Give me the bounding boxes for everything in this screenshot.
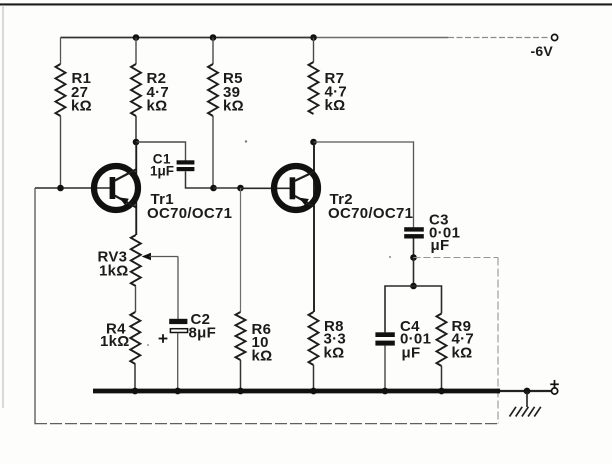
wire: base row to R6 node <box>214 187 241 189</box>
node: R1 / base / feedback junction <box>57 185 64 192</box>
wire: -6V supply rail (top) <box>61 37 550 39</box>
label Tr2 type OC70/OC71 <box>328 205 413 222</box>
wire: rail to R1 top <box>60 38 62 65</box>
node: rail junction at C2 <box>174 388 181 395</box>
node: rail junction at R4 <box>132 388 139 395</box>
capacitor C4 0.01uF <box>375 332 394 345</box>
ground rail (bottom, thick) <box>93 389 551 394</box>
svg-text:1μF: 1μF <box>150 164 174 179</box>
transistor Tr2 OC70/OC71 (PNP) <box>274 142 318 312</box>
svg-text:OC70/OC71: OC70/OC71 <box>328 205 413 222</box>
svg-text:kΩ: kΩ <box>71 98 92 115</box>
wire: output node down to C4/R9 tee <box>413 258 415 287</box>
wire: collector node to C1 left <box>136 142 186 161</box>
label Tr1 <box>151 191 174 208</box>
node: rail crossing at feedback wire <box>496 389 501 394</box>
transistor Tr1 OC70/OC71 (PNP) <box>94 142 138 235</box>
node: rail junction at R8 <box>310 388 317 395</box>
wire: C3 bottom to output node <box>413 239 415 258</box>
label + polarity at output terminal <box>550 380 559 389</box>
node: rail junction at R6 <box>237 388 244 395</box>
label C4 0.01uF <box>400 318 431 362</box>
label R9 4.7 kOhm <box>452 318 475 362</box>
wire: feedback bottom horizontal <box>35 423 498 425</box>
svg-text:8μF: 8μF <box>189 325 217 342</box>
label R8 3.3 kOhm <box>324 318 347 362</box>
wire: rail to R2 top <box>135 38 137 65</box>
terminal -6V (open circle) <box>552 34 558 40</box>
svg-text:kΩ: kΩ <box>325 97 346 114</box>
capacitor C1 1uF <box>177 160 195 171</box>
svg-text:OC70/OC71: OC70/OC71 <box>147 205 232 222</box>
label C1 1uF <box>150 152 174 179</box>
svg-text:1kΩ: 1kΩ <box>100 333 130 350</box>
node: output junction (C3 / feedback) <box>410 254 417 261</box>
scan speck <box>147 344 149 346</box>
node: rail junction at ground <box>524 388 531 395</box>
label R4 1kOhm <box>100 321 130 351</box>
svg-text:-6V: -6V <box>531 43 554 59</box>
wire: RV3 bottom to R4 top <box>135 286 137 312</box>
resistor R2 4.7k <box>131 64 141 116</box>
terminal + output (open circle) <box>552 388 558 394</box>
node: top rail junction at R5 <box>210 34 217 41</box>
wire: tee to C4 and R9 tops <box>385 286 442 332</box>
label R6 10 kOhm <box>252 321 273 365</box>
wire: feedback from output node right <box>414 257 499 259</box>
wire: feedback/base wire into Tr1 base <box>35 187 110 189</box>
wire: R6 top vertical from base node <box>240 188 242 312</box>
C2 polarity plus <box>159 334 168 343</box>
resistor R9 4.7k <box>437 314 447 367</box>
resistor R7 4.7k <box>309 62 319 114</box>
resistor R4 1k <box>130 312 140 364</box>
label Tr1 type OC70/OC71 <box>147 205 232 222</box>
svg-text:kΩ: kΩ <box>452 345 473 362</box>
capacitor C3 0.01uF <box>404 227 424 238</box>
svg-text:kΩ: kΩ <box>252 348 273 365</box>
label R2 4.7 kOhm <box>147 70 170 115</box>
svg-text:kΩ: kΩ <box>324 345 345 362</box>
wire: node to Tr2 base <box>241 187 295 189</box>
node: Tr2 collector / R7 / C3 junction <box>310 139 317 146</box>
resistor R8 3.3k <box>309 312 319 365</box>
wire: feedback left vertical to Tr1 base <box>34 188 36 424</box>
border frame left <box>2 5 4 408</box>
node: C4/R9 tee junction <box>410 283 417 290</box>
RV3 wiper arrow <box>142 253 178 260</box>
wire: R1 bottom to base node <box>60 116 62 188</box>
wire: R2 bottom to collector node <box>135 116 137 142</box>
wire: C4 bottom to ground rail <box>384 346 386 391</box>
wire: R5 bottom to Tr2 base node <box>212 116 214 188</box>
wire: wiper down to C2 <box>177 257 179 320</box>
node: rail junction at C4 <box>382 388 389 395</box>
label -6V <box>531 43 554 59</box>
node: R6 top junction <box>237 185 244 192</box>
label C3 0.01uF <box>429 212 460 255</box>
wire: R4 bottom to ground rail <box>134 364 136 391</box>
ground symbol <box>510 391 541 417</box>
wire: C1 bottom to Tr2 base node <box>186 171 214 188</box>
label R5 39 kOhm <box>223 70 244 115</box>
label Tr2 <box>330 191 353 208</box>
capacitor C2 8uF electrolytic <box>169 319 187 333</box>
wire: feedback right vertical <box>497 258 499 424</box>
border frame top <box>0 3 612 5</box>
label R7 4.7 kOhm <box>325 70 348 114</box>
node: Tr1 collector / R2 / C1 junction <box>133 139 140 146</box>
wire: Tr2 collector node to C3 top <box>314 142 414 227</box>
svg-text:μF: μF <box>402 345 421 362</box>
wire: C2 bottom to ground rail <box>177 333 179 391</box>
potentiometer RV3 1k <box>131 235 141 286</box>
resistor R1 27k <box>56 64 66 116</box>
label C2 8uF <box>189 311 217 342</box>
wire: R8 bottom to ground rail <box>313 365 315 391</box>
label RV3 1kOhm <box>98 249 129 280</box>
node: top rail junction at R7 <box>310 34 317 41</box>
wire: R6 bottom to ground rail <box>240 360 242 391</box>
svg-text:1kΩ: 1kΩ <box>99 263 129 280</box>
node: top rail junction at R2 <box>133 34 140 41</box>
label R1 27 kOhm <box>71 70 92 115</box>
svg-text:kΩ: kΩ <box>223 98 244 115</box>
scan speck <box>389 256 391 258</box>
svg-text:kΩ: kΩ <box>147 98 168 115</box>
wire: R9 bottom to ground rail <box>441 366 443 391</box>
svg-text:μF: μF <box>431 237 450 254</box>
node: rail junction at R9 <box>438 388 445 395</box>
scan speck <box>245 140 247 142</box>
wire: rail to R5 top <box>212 38 214 65</box>
node: R5 / C1 junction on base wire <box>210 185 217 192</box>
resistor R5 39k <box>208 64 218 116</box>
wire: rail to R7 top <box>313 38 315 63</box>
resistor R6 10k <box>236 312 246 360</box>
